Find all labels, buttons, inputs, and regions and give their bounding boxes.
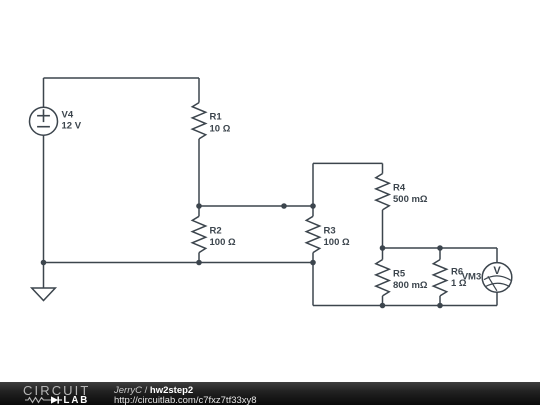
label R1: [210, 112, 231, 135]
footer title text: [114, 386, 193, 396]
wire R1 top lead: [198, 78, 200, 103]
svg-text:500 mΩ: 500 mΩ: [393, 194, 428, 205]
wire R5 bottom lead: [382, 296, 384, 306]
wire R4 top lead: [382, 163, 384, 173]
wire bottom rail: [44, 262, 314, 264]
resistor R2: [192, 216, 205, 252]
wire V4 top lead: [43, 78, 45, 107]
wire R4 bottom lead: [382, 210, 384, 248]
resistor R4: [376, 174, 389, 210]
wire R5 top lead: [382, 248, 384, 260]
label R5: [393, 269, 428, 292]
node junction dot R3 bottom: [310, 260, 316, 266]
svg-text:R4: R4: [393, 183, 406, 194]
wire V4 bottom lead: [43, 135, 45, 262]
wire VM3 top lead: [496, 248, 498, 263]
wire bottom-right rail: [313, 305, 497, 307]
node junction dot R6 bottom: [437, 303, 443, 309]
label R4: [393, 183, 428, 206]
node junction dot R2 top: [196, 203, 202, 209]
svg-text:R3: R3: [324, 225, 336, 236]
node junction dot R3 top: [310, 203, 316, 209]
label R6: [451, 267, 467, 289]
svg-text:12 V: 12 V: [62, 120, 82, 131]
node junction dot R2 bottom: [196, 260, 202, 266]
wire R3 bottom lead: [312, 253, 314, 306]
node junction dot mid rail: [281, 203, 287, 209]
voltage source V4: [30, 107, 58, 135]
ground: [32, 263, 56, 301]
voltmeter VM3: [482, 263, 512, 293]
footer url text: [114, 396, 257, 406]
wire mid-right rail: [383, 247, 498, 249]
resistor R5: [376, 260, 389, 296]
node junction dot R6 top: [437, 245, 443, 251]
footer bar: [0, 382, 540, 405]
wire R2 bottom lead: [198, 253, 200, 263]
resistor R6: [433, 260, 446, 296]
svg-text:800 mΩ: 800 mΩ: [393, 280, 428, 291]
svg-text:R2: R2: [210, 225, 222, 236]
svg-text:LAB: LAB: [64, 395, 90, 405]
label R2: [210, 225, 236, 248]
resistor R3: [306, 216, 319, 252]
wire R1 bottom lead: [198, 139, 200, 206]
wire R3 top lead: [312, 163, 314, 216]
CircuitLab logo: [22, 382, 122, 405]
label V4: [62, 110, 82, 132]
node junction dot R5 bottom: [380, 303, 386, 309]
wire R6 top lead: [439, 248, 441, 260]
svg-text:V: V: [493, 265, 501, 277]
wire R6 bottom lead: [439, 296, 441, 306]
wire VM3 bottom lead: [496, 292, 498, 305]
svg-text:R1: R1: [210, 112, 223, 123]
svg-text:VM3: VM3: [462, 272, 482, 283]
wire right section top rail: [313, 162, 383, 164]
svg-text:R5: R5: [393, 269, 406, 280]
resistor R1: [192, 103, 205, 139]
label R3: [324, 225, 350, 248]
wire mid rail: [199, 205, 313, 207]
svg-text:100 Ω: 100 Ω: [210, 237, 236, 248]
node junction dot ground rail: [41, 260, 47, 266]
wire top rail: [44, 77, 200, 79]
node junction dot R4 bottom: [380, 245, 386, 251]
svg-text:10 Ω: 10 Ω: [210, 124, 231, 135]
wire R2 top lead: [198, 206, 200, 216]
svg-text:V4: V4: [62, 110, 74, 121]
svg-text:100 Ω: 100 Ω: [324, 237, 350, 248]
